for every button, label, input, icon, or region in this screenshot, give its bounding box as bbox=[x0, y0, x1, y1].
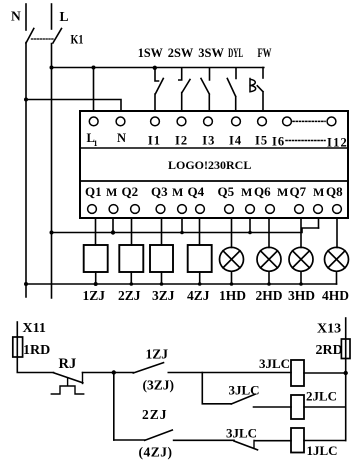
wire coil 3JLC to right rail bbox=[304, 372, 346, 374]
svg-text:Q4: Q4 bbox=[188, 184, 205, 199]
FW blade and lead bbox=[257, 86, 263, 111]
RJ fixed contact stub bbox=[82, 373, 84, 384]
junction lamp 3HD / bottom bus bbox=[299, 282, 303, 286]
svg-text:2ZJ: 2ZJ bbox=[142, 407, 168, 422]
svg-text:X11: X11 bbox=[23, 321, 46, 336]
svg-text:FW: FW bbox=[258, 45, 272, 60]
lamp 2HD bbox=[257, 247, 281, 271]
wire fuse 1RD to rung bbox=[17, 357, 53, 373]
terminal circle N bbox=[116, 117, 125, 126]
wire left branch vertical bbox=[113, 373, 115, 441]
svg-text:1ZJ: 1ZJ bbox=[146, 347, 169, 362]
wire M3 to M bus bbox=[249, 219, 251, 233]
junction coil 2ZJ / bottom bus bbox=[130, 282, 134, 286]
dotted link I6..I12 bbox=[293, 120, 325, 122]
output circle M4 bbox=[314, 205, 323, 214]
svg-text:2SW: 2SW bbox=[168, 45, 194, 60]
contact 3JLC (NO) blade bbox=[231, 394, 255, 404]
svg-text:1ZJ: 1ZJ bbox=[83, 288, 106, 303]
relay coil 3ZJ bbox=[150, 245, 173, 272]
terminal circle I2 bbox=[177, 117, 186, 126]
wire coil 1ZJ to bottom bus bbox=[95, 272, 97, 284]
svg-text:M: M bbox=[172, 185, 183, 199]
wire L bus (feeds switches) bbox=[52, 67, 264, 69]
output circle M3 bbox=[246, 205, 255, 214]
output circle Q6 bbox=[266, 205, 275, 214]
wire Q4 to coil 4ZJ bbox=[199, 219, 201, 245]
svg-text:Q3: Q3 bbox=[151, 184, 168, 199]
svg-text:1JLC: 1JLC bbox=[307, 443, 338, 458]
svg-text:DYL: DYL bbox=[228, 45, 243, 60]
output circle Q3 bbox=[156, 205, 165, 214]
svg-text:Q8: Q8 bbox=[326, 184, 343, 199]
terminal circle L1 bbox=[89, 117, 98, 126]
3JLC NC fixed contact stub bbox=[253, 440, 255, 448]
wire 2ZJ contact to 3JLC NC contact bbox=[174, 439, 234, 441]
svg-text:4ZJ: 4ZJ bbox=[187, 288, 210, 303]
lamp 1HD bbox=[220, 247, 244, 271]
junction coil 4ZJ / bottom bus bbox=[198, 282, 202, 286]
svg-text:I6: I6 bbox=[272, 135, 285, 149]
svg-text:3SW: 3SW bbox=[198, 45, 224, 60]
fuse 1RD bbox=[13, 337, 23, 357]
wire M bus bbox=[52, 228, 319, 233]
svg-text:Q7: Q7 bbox=[290, 184, 307, 199]
wire N rail bbox=[25, 43, 27, 298]
svg-text:1RD: 1RD bbox=[23, 343, 50, 358]
terminal circle I4 bbox=[232, 117, 241, 126]
svg-text:M: M bbox=[106, 185, 117, 199]
wire Q7 to lamp 3HD bbox=[300, 219, 302, 248]
junction M3 / M bus bbox=[248, 231, 252, 235]
switch FW float switch (to I5) bbox=[262, 68, 264, 79]
svg-text:N: N bbox=[11, 9, 21, 24]
svg-text:(4ZJ): (4ZJ) bbox=[139, 445, 173, 460]
wire coil 2JLC to right rail bbox=[304, 406, 346, 408]
block divider upper bbox=[80, 147, 348, 149]
relay coil 2ZJ bbox=[119, 245, 143, 272]
svg-text:X13: X13 bbox=[317, 322, 341, 337]
wire lamp 4HD to bottom bus bbox=[336, 271, 338, 284]
svg-text:L: L bbox=[60, 9, 69, 24]
lamp 4HD bbox=[325, 247, 349, 271]
wire Q2 to coil 2ZJ bbox=[131, 219, 133, 245]
svg-text:3HD: 3HD bbox=[288, 288, 315, 303]
wire L rail bbox=[51, 44, 53, 299]
wire Q6 to lamp 2HD bbox=[268, 219, 270, 248]
RJ heater element bbox=[51, 378, 83, 394]
switch K1 pole N blade bbox=[26, 29, 34, 44]
junction M2 / M bus bbox=[180, 231, 184, 235]
junction lamp 2HD / bottom bus bbox=[267, 282, 271, 286]
wire bottom rung start bbox=[114, 439, 145, 441]
switch K1 pole L blade bbox=[53, 29, 62, 44]
svg-text:3ZJ: 3ZJ bbox=[152, 288, 175, 303]
svg-text:LOGO!230RCL: LOGO!230RCL bbox=[168, 158, 251, 172]
contact 2ZJ (NO) blade bbox=[145, 430, 173, 440]
wire M1 to M bus bbox=[112, 219, 114, 233]
wire N rail top lead bbox=[25, 4, 27, 30]
svg-text:2HD: 2HD bbox=[256, 288, 283, 303]
wire coil 3ZJ to bottom bus bbox=[161, 272, 163, 284]
svg-text:(3ZJ): (3ZJ) bbox=[143, 378, 175, 393]
wire M2 to M bus bbox=[181, 219, 183, 233]
wire coil 1JLC to right rail bbox=[304, 440, 346, 442]
wire coil 4ZJ to bottom bus bbox=[199, 272, 201, 284]
svg-text:3JLC: 3JLC bbox=[226, 426, 257, 441]
svg-text:RJ: RJ bbox=[59, 356, 77, 372]
junction lamp 1HD / bottom bus bbox=[230, 282, 234, 286]
output circle Q5 bbox=[225, 205, 234, 214]
svg-text:2JLC: 2JLC bbox=[306, 389, 337, 404]
terminal circle I1 bbox=[151, 117, 160, 126]
svg-text:I5: I5 bbox=[255, 134, 268, 148]
junction N rail / bottom bus bbox=[24, 282, 28, 286]
svg-text:1SW: 1SW bbox=[138, 45, 163, 60]
junction N rail / N bus bbox=[24, 98, 28, 102]
wire branch down to 3JLC contact bbox=[202, 373, 231, 404]
junction L rail / L bus bbox=[50, 66, 54, 70]
junction M1 / M bus bbox=[111, 230, 115, 234]
wire X13 lead bbox=[345, 318, 347, 339]
junction rung / down branch to 2ZJ rung bbox=[112, 370, 116, 374]
contactor coil 1JLC bbox=[291, 428, 304, 453]
wire rung RJ to 1ZJ contact bbox=[83, 372, 134, 374]
terminal circle I12 bbox=[327, 117, 336, 126]
wire L rail top lead bbox=[51, 4, 53, 29]
svg-text:K1: K1 bbox=[71, 33, 84, 47]
svg-text:M: M bbox=[241, 185, 252, 199]
wire 3JLC NC to coil 1JLC bbox=[255, 440, 292, 442]
svg-text:I12: I12 bbox=[327, 136, 348, 150]
wire bottom return bus bbox=[26, 283, 337, 285]
FW float body (B shape) bbox=[250, 79, 256, 92]
junction L rail / M bus bbox=[50, 231, 54, 235]
output circle M1 bbox=[109, 205, 118, 214]
output circle Q2 bbox=[131, 205, 140, 214]
svg-text:4HD: 4HD bbox=[322, 288, 349, 303]
svg-text:2RD: 2RD bbox=[316, 343, 343, 358]
wire N bus to block terminal N bbox=[26, 100, 121, 112]
svg-text:Q6: Q6 bbox=[254, 184, 271, 199]
block divider lower bbox=[80, 180, 348, 182]
wire lamp 1HD to bottom bus bbox=[231, 271, 233, 284]
svg-text:M: M bbox=[313, 185, 324, 199]
wire Q1 to coil 1ZJ bbox=[95, 219, 97, 245]
svg-text:1HD: 1HD bbox=[219, 288, 246, 303]
junction coil 1ZJ / bottom bus bbox=[94, 282, 98, 286]
switch 1SW (to I1) bbox=[155, 68, 163, 111]
junction L bus / 1SW bbox=[153, 66, 157, 70]
svg-text:I2: I2 bbox=[175, 134, 188, 148]
svg-text:Q2: Q2 bbox=[122, 184, 139, 199]
terminal circle I5 bbox=[258, 117, 267, 126]
wire lamp 2HD to bottom bus bbox=[268, 271, 270, 284]
svg-text:3JLC: 3JLC bbox=[229, 383, 260, 398]
dotted label link bbox=[286, 140, 325, 142]
terminal circle I6 bbox=[283, 117, 292, 126]
wire Q8 to lamp 4HD bbox=[336, 219, 338, 248]
contactor coil 3JLC bbox=[291, 360, 304, 386]
svg-text:Q1: Q1 bbox=[85, 184, 102, 199]
svg-text:I4: I4 bbox=[229, 134, 242, 148]
contactor coil 2JLC bbox=[291, 395, 304, 419]
wire M4 to M bus bbox=[318, 219, 320, 228]
switch K1 mechanical link (dashed) bbox=[32, 38, 55, 40]
wire L lead down to block terminal L1 bbox=[93, 68, 95, 112]
switch DYL (to I4) bbox=[227, 68, 236, 111]
svg-text:I3: I3 bbox=[202, 134, 215, 148]
svg-text:2ZJ: 2ZJ bbox=[118, 288, 141, 303]
wire rung 1ZJ contact to coil 3JLC bbox=[168, 372, 291, 374]
svg-text:M: M bbox=[277, 185, 288, 199]
svg-text:3JLC: 3JLC bbox=[259, 356, 290, 371]
output circle Q8 bbox=[333, 205, 342, 214]
relay coil 1ZJ bbox=[84, 245, 108, 272]
wire lamp 3HD to bottom bus bbox=[300, 271, 302, 284]
output circle Q7 bbox=[295, 205, 304, 214]
output circle Q4 bbox=[196, 205, 205, 214]
wire 3JLC contact to coil 2JLC bbox=[254, 406, 292, 408]
output circle Q1 bbox=[88, 205, 97, 214]
junction coil 3ZJ / bottom bus bbox=[160, 282, 164, 286]
svg-text:I1: I1 bbox=[148, 134, 161, 148]
wire coil 2ZJ to bottom bus bbox=[130, 272, 132, 284]
fuse 2RD bbox=[341, 339, 350, 359]
wire Q5 to lamp 1HD bbox=[231, 219, 233, 248]
contact 1ZJ (NO) blade bbox=[133, 363, 163, 373]
svg-text:N: N bbox=[117, 131, 126, 145]
junction L bus / L lead bbox=[92, 66, 96, 70]
relay coil 4ZJ bbox=[188, 245, 212, 272]
thermal relay RJ NC contact blade bbox=[54, 373, 83, 383]
wire right rail bbox=[345, 359, 347, 441]
wire X11 lead bbox=[16, 322, 18, 337]
output circle M2 bbox=[178, 205, 187, 214]
junction right rail / 3JLC rung bbox=[344, 371, 348, 375]
wire Q3 to coil 3ZJ bbox=[161, 219, 163, 245]
lamp 3HD bbox=[289, 247, 313, 271]
svg-text:Q5: Q5 bbox=[218, 184, 235, 199]
switch 3SW (to I3) bbox=[201, 68, 210, 111]
terminal circle I3 bbox=[204, 117, 213, 126]
svg-text:1: 1 bbox=[94, 139, 98, 148]
contact 3JLC (NC) blade bbox=[234, 441, 258, 450]
PLC block LOGO!230RCL outline bbox=[80, 111, 348, 218]
switch 2SW (to I2) bbox=[179, 68, 190, 111]
